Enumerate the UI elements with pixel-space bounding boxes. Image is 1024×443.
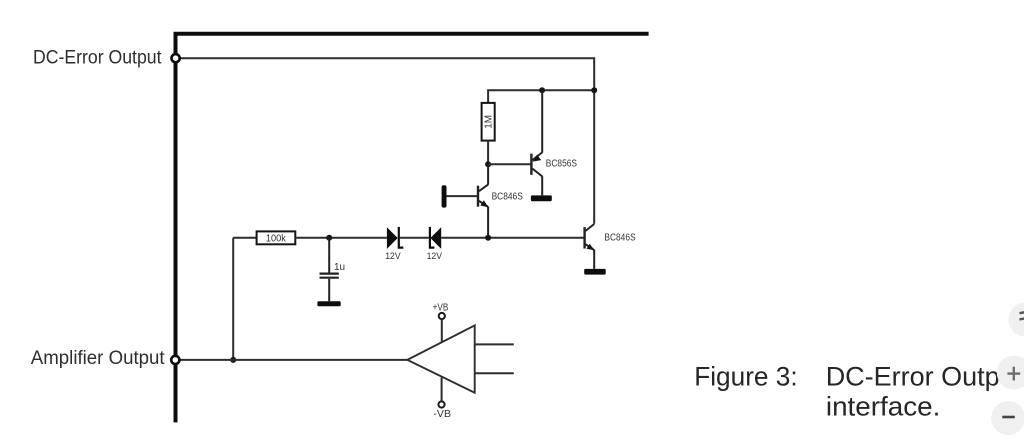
frame border (thick schematic sheet corner) [176,34,649,423]
svg-text:12V: 12V [385,251,401,261]
svg-text:BC846S: BC846S [604,232,635,243]
UI button zoom-out [991,401,1024,435]
svg-text:Amplifier Output: Amplifier Output [31,347,165,369]
svg-text:DC-Error Output: DC-Error Output [826,361,1023,391]
-VB supply terminal [433,377,451,420]
op-amp U1 [407,325,474,392]
svg-text:interface.: interface. [826,392,941,422]
svg-text:-VB: -VB [433,409,451,420]
terminal DC-Error Output [172,54,180,62]
wire left branch down [232,238,234,360]
node junction emitter/zener row [485,235,491,241]
svg-text:+VB: +VB [433,303,449,314]
zener diode D2 12V [430,227,441,249]
svg-text:1u: 1u [334,262,345,273]
wire stub to BC846S base [447,195,478,197]
node junction 488,164 [485,161,491,167]
terminal bar (left stub) [442,185,447,207]
UI button reset (partial, top) [1009,303,1024,337]
node junction capacitor tap [326,235,332,241]
+VB supply terminal [433,303,449,343]
ground capacitor [317,301,340,306]
UI button zoom-in [997,356,1024,390]
terminal Amplifier Output [171,356,179,364]
capacitor C1 [320,238,339,301]
wire main row left segment [233,237,256,239]
svg-text:DC-Error Output: DC-Error Output [33,46,162,68]
ground right BC846S [584,269,606,275]
svg-text:1M: 1M [483,115,494,129]
resistor R1 1M [482,103,495,141]
svg-text:100k: 100k [266,234,287,245]
transistor Q3 BC846S (NPN, right) [585,224,595,269]
wire between zeners [400,237,429,239]
transistor Q1 BC856S (PNP) [531,90,542,195]
wire DC-Error output net [176,58,595,224]
svg-text:BC846S: BC846S [492,191,523,202]
resistor R2 100k [257,231,296,244]
wire resistor to zener D1 [295,237,387,239]
op-amp input wire lower [475,372,514,374]
wire amplifier output [175,359,407,361]
op-amp input wire upper [475,343,514,345]
node junction amplifier wire [230,357,236,363]
ground BC856S collector [531,195,552,201]
svg-text:BC856S: BC856S [546,158,577,169]
wire zener D2 to BC846S base [441,237,583,239]
node junction 594,90 [591,87,597,93]
wire 1M bottom to node [487,141,489,165]
wire node to BC856S base [488,163,530,165]
node junction 542,90 [539,87,545,93]
svg-text:12V: 12V [427,251,443,261]
transistor Q2 BC846S (NPN, left) [478,164,488,238]
svg-text:Figure 3:: Figure 3: [694,361,798,391]
zener diode D1 12V [387,227,403,249]
wire top rail 1M to collector line [488,90,594,103]
